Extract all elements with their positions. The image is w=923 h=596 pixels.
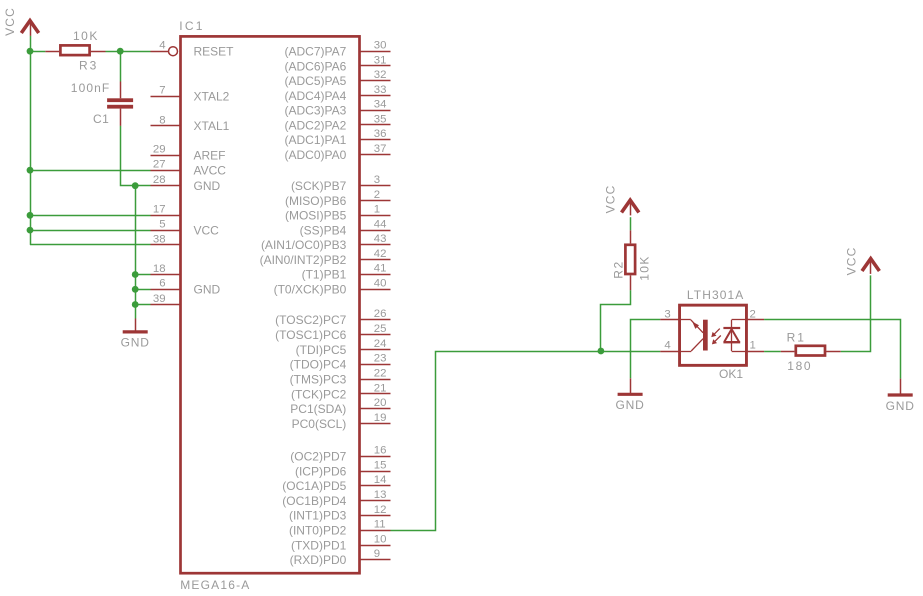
- label C1: [93, 112, 109, 126]
- svg-text:AREF: AREF: [194, 149, 226, 163]
- svg-text:16: 16: [374, 445, 387, 457]
- label IC1: [179, 19, 204, 33]
- svg-text:R3: R3: [79, 58, 98, 72]
- IC1 pin 36 (ADC1)PA1: [285, 128, 391, 147]
- svg-text:33: 33: [374, 84, 387, 96]
- IC1 pin 16 (OC2)PD7: [290, 445, 390, 464]
- wire R2 bottom to INT0 net: [601, 290, 631, 351]
- svg-text:29: 29: [153, 144, 166, 156]
- svg-text:(INT0)PD2: (INT0)PD2: [289, 524, 347, 538]
- GND net vertical under IC: [135, 186, 137, 319]
- svg-text:C1: C1: [93, 112, 109, 126]
- svg-text:38: 38: [153, 233, 166, 245]
- svg-text:(MOSI)PB5: (MOSI)PB5: [285, 209, 347, 223]
- svg-text:9: 9: [374, 548, 380, 560]
- junction R2 / INT0 net: [598, 348, 605, 355]
- IC1 pin 34 (ADC3)PA3: [285, 99, 391, 118]
- label 10K (R2 value): [638, 255, 652, 281]
- IC1 pin 24 (TDI)PC5: [296, 338, 391, 357]
- svg-text:(AIN1/OC0)PB3: (AIN1/OC0)PB3: [261, 238, 347, 252]
- optocoupler OK1 LED diode (right side): [723, 320, 746, 352]
- label R1: [787, 331, 806, 345]
- GND ground symbol (right): [886, 379, 915, 413]
- optocoupler OK1 pin 1 stub: [746, 340, 764, 352]
- wire R1 to VCC right: [841, 275, 871, 351]
- IC IC1 MEGA16-A body: [181, 36, 360, 573]
- svg-text:20: 20: [374, 397, 387, 409]
- junction VCC rail / R3: [27, 48, 34, 55]
- svg-text:R2: R2: [612, 260, 626, 279]
- IC1 pin 6 GND: [151, 278, 221, 297]
- svg-text:GND: GND: [886, 399, 915, 413]
- resistor R2: [625, 230, 635, 290]
- optocoupler OK1 box: [680, 305, 747, 365]
- svg-text:(OC1B)PD4: (OC1B)PD4: [282, 494, 346, 508]
- svg-text:GND: GND: [616, 398, 645, 412]
- junction VCC rail / pin 17: [27, 212, 34, 219]
- svg-text:IC1: IC1: [179, 19, 204, 33]
- wire VCC rail to pin 5: [30, 230, 151, 232]
- svg-text:PC0(SCL): PC0(SCL): [292, 417, 347, 431]
- wire VCC rail to AVCC pin 27: [30, 170, 151, 172]
- svg-text:10: 10: [374, 533, 387, 545]
- label MEGA16-A: [180, 578, 250, 592]
- IC1 pin 2 (MISO)PB6: [285, 189, 391, 208]
- svg-text:(ADC0)PA0: (ADC0)PA0: [285, 148, 347, 162]
- svg-text:7: 7: [159, 85, 165, 97]
- IC1 pin 42 (AIN0/INT2)PB2: [260, 248, 391, 267]
- svg-text:100nF: 100nF: [71, 81, 111, 95]
- IC1 pin 14 (OC1A)PD5: [282, 474, 390, 493]
- svg-text:(ADC2)PA2: (ADC2)PA2: [285, 118, 347, 132]
- svg-text:4: 4: [159, 40, 165, 52]
- IC1 pin 44 (SS)PB4: [300, 218, 391, 237]
- wire VCC to R3: [30, 51, 45, 53]
- wire GND net to pin 18: [135, 274, 150, 276]
- wire R3 to RESET net: [106, 51, 151, 53]
- IC1 pin 29 AREF: [151, 144, 226, 163]
- optocoupler OK1 phototransistor (left side): [681, 320, 708, 352]
- optocoupler OK1 light arrows: [711, 329, 721, 345]
- svg-text:(TCK)PC2: (TCK)PC2: [291, 387, 347, 401]
- svg-text:13: 13: [374, 489, 387, 501]
- wire junction to C1 top: [120, 51, 122, 81]
- svg-text:(ADC4)PA4: (ADC4)PA4: [285, 89, 347, 103]
- svg-text:(ADC6)PA6: (ADC6)PA6: [285, 59, 347, 73]
- svg-text:(OC1A)PD5: (OC1A)PD5: [282, 479, 346, 493]
- svg-text:(ADC3)PA3: (ADC3)PA3: [285, 104, 347, 118]
- svg-text:4: 4: [664, 340, 670, 352]
- svg-text:39: 39: [153, 293, 166, 305]
- svg-text:12: 12: [374, 504, 387, 516]
- svg-text:(INT1)PD3: (INT1)PD3: [289, 509, 347, 523]
- svg-text:43: 43: [374, 233, 387, 245]
- wire optocoupler pin 3 to GND: [631, 320, 661, 379]
- svg-text:22: 22: [374, 368, 387, 380]
- svg-text:OK1: OK1: [719, 367, 743, 381]
- IC1 pin 10 (TXD)PD1: [291, 533, 391, 552]
- wire optocoupler pin 1 to R1: [764, 351, 781, 353]
- svg-text:35: 35: [374, 113, 387, 125]
- svg-text:(MISO)PB6: (MISO)PB6: [285, 194, 347, 208]
- svg-text:28: 28: [153, 174, 166, 186]
- svg-text:GND: GND: [194, 179, 221, 193]
- label R3: [79, 58, 98, 72]
- IC1 pin 28 GND: [151, 174, 221, 193]
- svg-text:24: 24: [374, 338, 387, 350]
- svg-text:18: 18: [153, 263, 166, 275]
- svg-text:42: 42: [374, 248, 387, 260]
- svg-text:(AIN0/INT2)PB2: (AIN0/INT2)PB2: [260, 253, 347, 267]
- svg-text:MEGA16-A: MEGA16-A: [180, 578, 250, 592]
- GND ground symbol (under IC): [121, 319, 150, 350]
- wire VCC arrow to R2 top: [630, 217, 632, 230]
- junction R3 / C1 / RESET: [117, 48, 124, 55]
- junction GND net / pin 6: [132, 286, 139, 293]
- svg-text:(OC2)PD7: (OC2)PD7: [290, 450, 346, 464]
- svg-text:(SCK)PB7: (SCK)PB7: [291, 179, 347, 193]
- label 10K (R3 value): [73, 29, 99, 43]
- IC1 pin 12 (INT1)PD3: [289, 504, 391, 523]
- svg-text:AVCC: AVCC: [194, 164, 227, 178]
- svg-text:(TDI)PC5: (TDI)PC5: [296, 343, 347, 357]
- VCC rail left vertical: [30, 36, 32, 245]
- svg-text:5: 5: [159, 219, 165, 231]
- svg-text:(ADC7)PA7: (ADC7)PA7: [285, 45, 347, 59]
- svg-text:XTAL1: XTAL1: [194, 119, 230, 133]
- IC1 pin 18: [151, 263, 181, 275]
- IC1 pin 5 VCC: [151, 219, 220, 238]
- svg-text:2: 2: [750, 308, 756, 320]
- svg-text:(ADC5)PA5: (ADC5)PA5: [285, 74, 347, 88]
- wire GND net to pin 39: [135, 304, 150, 306]
- IC1 pin 22 (TMS)PC3: [290, 368, 391, 387]
- svg-text:2: 2: [374, 189, 380, 201]
- wire INT0 pin 11 to optocoupler pin 4: [391, 352, 661, 531]
- junction GND net / pin 28: [132, 182, 139, 189]
- svg-text:11: 11: [374, 519, 386, 531]
- svg-text:6: 6: [159, 278, 165, 290]
- svg-text:32: 32: [374, 69, 387, 81]
- svg-text:VCC: VCC: [604, 184, 618, 213]
- svg-text:44: 44: [374, 218, 387, 230]
- svg-text:3: 3: [664, 308, 670, 320]
- IC1 pin 43 (AIN1/OC0)PB3: [261, 233, 391, 252]
- svg-text:14: 14: [374, 474, 387, 486]
- svg-text:15: 15: [374, 459, 387, 471]
- IC1 pin 37 (ADC0)PA0: [285, 143, 391, 162]
- svg-text:17: 17: [153, 204, 166, 216]
- svg-text:37: 37: [374, 143, 387, 155]
- optocoupler OK1 pin 4 stub: [660, 340, 680, 352]
- IC1 pin 9 (RXD)PD0: [290, 548, 391, 567]
- svg-text:25: 25: [374, 323, 387, 335]
- svg-text:27: 27: [153, 159, 166, 171]
- svg-text:31: 31: [374, 54, 387, 66]
- svg-text:(TMS)PC3: (TMS)PC3: [290, 372, 347, 386]
- resistor R3: [45, 45, 105, 55]
- svg-text:PC1(SDA): PC1(SDA): [290, 402, 346, 416]
- svg-text:(RXD)PD0: (RXD)PD0: [290, 553, 347, 567]
- VCC power symbol (middle): [604, 184, 639, 215]
- IC1 pin 20 PC1(SDA): [290, 397, 390, 416]
- capacitor C1: [107, 82, 133, 126]
- svg-text:1: 1: [750, 340, 756, 352]
- svg-text:36: 36: [374, 128, 387, 140]
- svg-text:(SS)PB4: (SS)PB4: [300, 223, 347, 237]
- svg-text:GND: GND: [121, 336, 150, 350]
- resistor R1: [781, 346, 841, 356]
- label 100nF (C1 value): [71, 81, 111, 95]
- IC1 pin 21 (TCK)PC2: [291, 382, 391, 401]
- IC1 pin 33 (ADC4)PA4: [285, 84, 391, 103]
- wire optocoupler pin 2 to GND right: [764, 320, 900, 379]
- IC1 pin 39: [151, 293, 181, 305]
- svg-text:10K: 10K: [73, 29, 99, 43]
- IC1 pin 41 (T1)PB1: [302, 263, 391, 282]
- IC1 pin 3 (SCK)PB7: [291, 174, 391, 193]
- svg-text:8: 8: [159, 114, 165, 126]
- svg-text:LTH301A: LTH301A: [687, 288, 745, 302]
- wire GND net to pin 6: [135, 289, 150, 291]
- IC1 pin 8 XTAL1: [151, 114, 230, 133]
- svg-text:19: 19: [374, 412, 387, 424]
- IC1 pin 13 (OC1B)PD4: [282, 489, 390, 508]
- IC1 pin 26 (TOSC2)PC7: [275, 308, 390, 327]
- svg-text:(ICP)PD6: (ICP)PD6: [295, 464, 347, 478]
- svg-text:23: 23: [374, 353, 387, 365]
- IC1 pin 27 AVCC: [151, 159, 227, 178]
- IC1 pin 17: [151, 204, 181, 216]
- VCC power symbol (right): [845, 246, 880, 275]
- junction GND net / pin 39: [132, 301, 139, 308]
- IC1 pin 31 (ADC6)PA6: [285, 54, 391, 73]
- svg-text:180: 180: [787, 359, 812, 373]
- svg-text:(T1)PB1: (T1)PB1: [302, 268, 347, 282]
- IC1 pin 11 (INT0)PD2: [289, 519, 391, 538]
- svg-text:VCC: VCC: [845, 246, 859, 275]
- label R2: [612, 260, 626, 279]
- svg-text:(ADC1)PA1: (ADC1)PA1: [285, 133, 347, 147]
- junction VCC rail / AVCC: [27, 167, 34, 174]
- svg-text:(T0/XCK)PB0: (T0/XCK)PB0: [274, 282, 347, 296]
- svg-text:VCC: VCC: [194, 223, 220, 237]
- label OK1: [719, 367, 743, 381]
- IC1 pin 7 XTAL2: [151, 85, 230, 104]
- svg-text:30: 30: [374, 40, 387, 52]
- wire VCC rail to pin 17: [30, 215, 151, 217]
- IC1 pin 25 (TOSC1)PC6: [275, 323, 390, 342]
- IC1 pin 35 (ADC2)PA2: [285, 113, 391, 132]
- wire VCC rail to pin 38: [30, 244, 151, 246]
- IC1 pin 23 (TDO)PC4: [290, 353, 391, 372]
- wire C1 bottom to GND net: [121, 126, 151, 186]
- GND ground symbol (middle): [616, 378, 645, 412]
- IC1 pin 40 (T0/XCK)PB0: [274, 277, 391, 296]
- svg-text:(TXD)PD1: (TXD)PD1: [291, 538, 347, 552]
- IC1 pin 30 (ADC7)PA7: [285, 40, 391, 59]
- svg-text:XTAL2: XTAL2: [194, 90, 230, 104]
- svg-text:26: 26: [374, 308, 387, 320]
- svg-text:VCC: VCC: [3, 7, 17, 36]
- optocoupler OK1 pin 3 stub: [660, 308, 680, 320]
- IC1 pin 32 (ADC5)PA5: [285, 69, 391, 88]
- label LTH301A: [687, 288, 745, 302]
- svg-text:(TDO)PC4: (TDO)PC4: [290, 358, 347, 372]
- IC1 pin 15 (ICP)PD6: [295, 459, 391, 478]
- junction VCC rail / pin 5: [27, 227, 34, 234]
- svg-text:GND: GND: [194, 283, 221, 297]
- junction GND net / pin 18: [132, 271, 139, 278]
- IC1 pin 19 PC0(SCL): [292, 412, 391, 431]
- svg-text:40: 40: [374, 277, 387, 289]
- IC1 pin 1 (MOSI)PB5: [285, 204, 391, 223]
- VCC power symbol (left): [3, 7, 39, 36]
- svg-text:(TOSC1)PC6: (TOSC1)PC6: [275, 328, 346, 342]
- svg-text:3: 3: [374, 174, 380, 186]
- IC1 pin 38: [151, 233, 181, 245]
- IC1 pin 4 RESET: [151, 40, 235, 59]
- svg-text:34: 34: [374, 99, 387, 111]
- svg-text:RESET: RESET: [194, 45, 235, 59]
- svg-text:R1: R1: [787, 331, 806, 345]
- svg-text:10K: 10K: [638, 255, 652, 281]
- svg-text:(TOSC2)PC7: (TOSC2)PC7: [275, 313, 346, 327]
- svg-text:21: 21: [374, 382, 387, 394]
- optocoupler OK1 pin 2 stub: [746, 308, 764, 320]
- svg-text:41: 41: [374, 263, 387, 275]
- label 180 (R1 value): [787, 359, 812, 373]
- svg-text:1: 1: [374, 204, 380, 216]
